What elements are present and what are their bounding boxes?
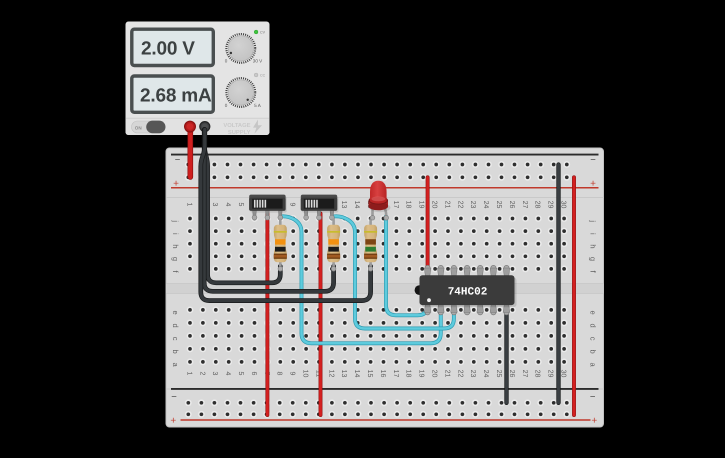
wire cyan LED-to-U1-pin1 [386, 217, 428, 316]
breadboard [166, 148, 604, 427]
svg-text:2.68 mA: 2.68 mA [140, 85, 212, 106]
svg-text:26: 26 [508, 370, 515, 378]
svg-text:5 A: 5 A [254, 103, 262, 108]
svg-text:h: h [171, 244, 180, 248]
svg-text:24: 24 [482, 201, 489, 209]
svg-text:−: − [590, 155, 596, 166]
switch leg caps [252, 215, 257, 220]
ON toggle [132, 121, 166, 134]
svg-text:15: 15 [366, 370, 373, 378]
resistor R3 [364, 219, 377, 269]
svg-text:22: 22 [456, 370, 463, 378]
wire cyan S2-to-U1-pin3 [333, 216, 454, 328]
slide switch S1 [249, 195, 287, 217]
svg-text:3: 3 [211, 203, 218, 207]
svg-text:−: − [175, 155, 181, 166]
svg-text:4: 4 [224, 203, 231, 207]
IC U1 74HC02 [415, 265, 517, 315]
resistor R2 [327, 219, 340, 269]
svg-text:28: 28 [534, 370, 541, 378]
svg-text:−: − [171, 391, 177, 402]
svg-text:12: 12 [327, 370, 334, 378]
wire black U1-pin8-to-bottom-minus [504, 310, 508, 403]
svg-text:0: 0 [225, 103, 228, 108]
svg-text:2.00 V: 2.00 V [141, 39, 195, 60]
wire black supply-to-R1 [205, 130, 281, 283]
slide switch S2 [301, 195, 339, 217]
wire red top-plus-to-U1-pin14 [426, 177, 430, 266]
svg-text:VOLTAGE: VOLTAGE [223, 122, 250, 129]
wire red supply-to-rail-plus [188, 128, 194, 177]
wire cyan S1-to-U1-pin2 [280, 216, 440, 343]
svg-text:e: e [171, 311, 180, 315]
wire black right-rail-link [556, 165, 560, 403]
svg-text:+: + [591, 415, 597, 426]
svg-text:ON: ON [135, 125, 143, 130]
indicator CV [254, 30, 265, 34]
svg-text:5: 5 [237, 203, 244, 207]
indicator CC [254, 73, 265, 77]
svg-text:20: 20 [431, 201, 438, 209]
svg-text:74HC02: 74HC02 [448, 286, 488, 298]
svg-text:26: 26 [508, 201, 515, 209]
svg-text:16: 16 [379, 370, 386, 378]
terminal positive [185, 121, 196, 132]
svg-text:g: g [588, 257, 597, 261]
lightning icon [253, 120, 262, 134]
bottom rail plus line [181, 419, 591, 421]
terminal strip holes [187, 215, 194, 222]
svg-text:18: 18 [405, 370, 412, 378]
svg-text:13: 13 [340, 370, 347, 378]
wire black supply-to-R2 [204, 130, 333, 292]
svg-text:SUPPLY: SUPPLY [228, 129, 251, 136]
wire red S2-to-bottom-plus [319, 214, 323, 416]
power supply PS1 [126, 22, 270, 136]
top rail minus line [171, 154, 599, 156]
svg-text:9: 9 [289, 372, 296, 376]
svg-text:22: 22 [456, 201, 463, 209]
svg-text:25: 25 [495, 201, 502, 209]
knob 5 A [225, 78, 262, 108]
wire red right-rail-link [572, 177, 576, 415]
svg-text:1: 1 [185, 203, 192, 207]
svg-text:21: 21 [443, 370, 450, 378]
svg-text:19: 19 [418, 201, 425, 209]
svg-text:j: j [588, 219, 597, 222]
resistor leg caps [278, 267, 283, 272]
svg-text:10: 10 [302, 370, 309, 378]
svg-text:23: 23 [469, 370, 476, 378]
svg-text:21: 21 [443, 201, 450, 209]
svg-text:0: 0 [225, 59, 228, 64]
svg-text:b: b [171, 350, 180, 354]
svg-text:8: 8 [276, 372, 283, 376]
svg-text:28: 28 [534, 201, 541, 209]
svg-text:4: 4 [224, 372, 231, 376]
LED D1 [369, 181, 391, 220]
svg-text:5: 5 [237, 372, 244, 376]
voltage display 2.00 V [132, 29, 214, 65]
svg-text:19: 19 [418, 370, 425, 378]
resistor R1 [274, 219, 287, 269]
bottom rail minus line [171, 388, 599, 390]
rail holes [185, 161, 192, 168]
svg-text:9: 9 [289, 203, 296, 207]
VOLTAGE SUPPLY label [223, 122, 250, 136]
current display 2.68 mA [132, 76, 214, 112]
breadboard center channel [166, 284, 604, 294]
svg-text:+: + [590, 179, 596, 190]
svg-text:13: 13 [340, 201, 347, 209]
svg-text:14: 14 [353, 201, 360, 209]
svg-text:g: g [171, 257, 180, 261]
column numbers [185, 201, 566, 378]
svg-text:25: 25 [495, 370, 502, 378]
svg-text:+: + [170, 415, 176, 426]
svg-text:29: 29 [547, 201, 554, 209]
svg-text:30 V: 30 V [253, 59, 263, 64]
svg-text:17: 17 [392, 201, 399, 209]
svg-text:24: 24 [482, 370, 489, 378]
svg-text:27: 27 [521, 370, 528, 378]
svg-text:b: b [588, 350, 597, 354]
svg-text:CV: CV [260, 31, 266, 35]
svg-text:c: c [588, 337, 597, 341]
knob 30 V [225, 34, 263, 64]
svg-text:h: h [588, 244, 597, 248]
wire black supply-to-R3 [201, 130, 371, 301]
svg-text:1: 1 [185, 372, 192, 376]
svg-text:c: c [171, 337, 180, 341]
svg-text:+: + [173, 179, 179, 190]
svg-text:e: e [588, 311, 597, 315]
svg-text:20: 20 [431, 370, 438, 378]
svg-text:6: 6 [250, 372, 257, 376]
rail polarity labels [171, 155, 596, 403]
svg-text:23: 23 [469, 201, 476, 209]
svg-text:14: 14 [353, 370, 360, 378]
top rail plus line [171, 187, 599, 189]
svg-text:17: 17 [392, 370, 399, 378]
svg-text:j: j [171, 219, 180, 222]
svg-text:18: 18 [405, 201, 412, 209]
svg-text:3: 3 [211, 372, 218, 376]
svg-text:d: d [171, 324, 180, 328]
svg-text:2: 2 [198, 372, 205, 376]
svg-text:27: 27 [521, 201, 528, 209]
svg-text:−: − [590, 391, 596, 402]
terminal negative [200, 122, 210, 132]
row letters [171, 219, 598, 367]
wire red S1-to-bottom-plus [265, 214, 269, 416]
svg-text:CC: CC [260, 74, 266, 78]
svg-text:d: d [588, 324, 597, 328]
svg-text:29: 29 [547, 370, 554, 378]
